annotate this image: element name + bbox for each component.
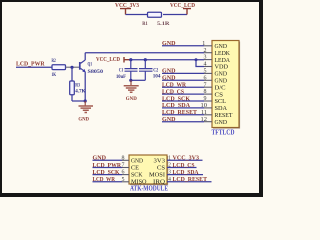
- wire R3 bottom to emitter: [72, 100, 85, 102]
- power port VCC_LCD (mid): [96, 56, 131, 63]
- pin 9: [204, 100, 212, 102]
- module pin 4: [167, 181, 212, 183]
- module pin 5: [122, 181, 129, 183]
- svg-text:10: 10: [201, 103, 208, 109]
- svg-text:104: 104: [153, 74, 161, 80]
- svg-text:S8050: S8050: [88, 69, 104, 75]
- wire Q1 emitter down: [84, 72, 86, 101]
- svg-text:Q1: Q1: [88, 61, 93, 67]
- wire GND to pin12: [162, 121, 204, 123]
- pin 8: [204, 93, 212, 95]
- svg-text:LCD_RESET: LCD_RESET: [173, 176, 208, 183]
- resistor R2: [52, 58, 66, 78]
- svg-text:3V3: 3V3: [154, 158, 166, 164]
- wire LCD_PWR to R2: [16, 66, 52, 68]
- svg-text:1: 1: [202, 41, 205, 47]
- wire GND to pin1: [162, 45, 204, 47]
- svg-text:LCD_PWR: LCD_PWR: [16, 61, 45, 68]
- pin 7: [204, 86, 212, 88]
- svg-text:TFTLCD: TFTLCD: [212, 130, 235, 137]
- svg-text:7: 7: [204, 82, 207, 88]
- svg-text:VCC_LCD: VCC_LCD: [96, 56, 120, 63]
- svg-text:10uF: 10uF: [116, 74, 126, 80]
- wire rail collector to LEDK pin2: [85, 52, 204, 54]
- wire LCD_SCK to pin6: [93, 174, 123, 176]
- photo border left: [0, 0, 2, 197]
- photo border bottom: [0, 193, 263, 197]
- svg-text:5: 5: [204, 69, 207, 75]
- node junction LEDA/VDD: [195, 58, 198, 61]
- svg-text:GND: GND: [126, 96, 137, 102]
- svg-text:1K: 1K: [52, 72, 57, 78]
- wire GND to pin6: [162, 79, 204, 81]
- svg-text:VCC_LCD: VCC_LCD: [170, 2, 195, 9]
- svg-text:CE: CE: [131, 166, 139, 172]
- photo border right: [259, 0, 263, 197]
- wire Q1 collector to rail: [84, 53, 86, 60]
- wire LCD_PWR to pin7: [93, 167, 123, 169]
- svg-text:11: 11: [201, 110, 207, 116]
- node junction emitter/R3: [84, 99, 87, 102]
- capacitor C2: [139, 60, 161, 81]
- svg-text:2: 2: [204, 48, 207, 54]
- svg-text:3: 3: [204, 55, 207, 61]
- wire LCD_WR to pin7: [162, 86, 204, 88]
- power port VCC_3V3: [115, 2, 140, 14]
- ground (Q1 emitter): [78, 101, 93, 122]
- wire LCD_RESET to pin11: [162, 114, 204, 116]
- photo border top: [0, 0, 263, 2]
- module pin 6: [122, 174, 129, 176]
- wire LCD_SDA to pin10: [162, 107, 204, 109]
- svg-text:SCK: SCK: [131, 173, 143, 179]
- svg-text:12: 12: [201, 117, 208, 123]
- pin 5: [204, 72, 212, 74]
- connector U_TFTLCD box: [212, 41, 240, 129]
- pin 3: [204, 59, 212, 61]
- svg-text:R1: R1: [142, 21, 148, 27]
- power port VCC_LCD (top): [170, 2, 195, 14]
- svg-text:ATK-MODULE: ATK-MODULE: [130, 185, 168, 192]
- wire VCC_LCD rail: [131, 59, 204, 61]
- capacitor C1: [116, 60, 138, 81]
- svg-text:4: 4: [204, 62, 207, 68]
- svg-text:R2: R2: [52, 58, 56, 64]
- node junction C1: [129, 58, 132, 61]
- svg-text:6: 6: [204, 75, 207, 81]
- svg-text:MOSI: MOSI: [149, 173, 165, 179]
- connector ATK-MODULE box: [129, 155, 168, 185]
- pin 4: [204, 66, 212, 68]
- node junction C2: [144, 58, 147, 61]
- wire LCD_WR to pin5: [93, 181, 123, 183]
- wire R2 to Q1 base: [66, 66, 80, 68]
- svg-text:LCD_SDA: LCD_SDA: [173, 169, 199, 176]
- module pin 2: [167, 167, 197, 169]
- ground (C1 C2): [124, 80, 139, 102]
- wire VCC_3V3 to R1: [126, 14, 148, 16]
- pin 1: [204, 45, 212, 47]
- svg-text:GND: GND: [78, 116, 89, 122]
- module pin 8: [122, 159, 129, 161]
- module pin 3: [167, 174, 203, 176]
- pin 2: [204, 52, 212, 54]
- wire GND to pin5: [162, 72, 204, 74]
- node junction at R3 top: [70, 66, 73, 69]
- svg-text:GND: GND: [131, 158, 144, 164]
- svg-text:C2: C2: [153, 67, 158, 73]
- resistor R3: [70, 67, 86, 101]
- svg-text:8: 8: [204, 89, 207, 95]
- pin 10: [204, 107, 212, 109]
- wire R1 to VCC_LCD: [163, 14, 187, 16]
- pin 11: [204, 114, 212, 116]
- svg-text:CS: CS: [157, 166, 165, 172]
- wire to VDD pin4: [196, 60, 204, 67]
- resistor R1: [142, 12, 170, 27]
- svg-text:5.1R: 5.1R: [157, 21, 170, 27]
- wire LCD_CS to pin8: [162, 93, 204, 95]
- svg-text:VCC_3V3: VCC_3V3: [173, 155, 200, 162]
- svg-text:R3: R3: [75, 83, 80, 89]
- wire LCD_SCK to pin9: [162, 100, 204, 102]
- svg-text:C1: C1: [119, 67, 124, 73]
- svg-text:9: 9: [204, 96, 207, 102]
- svg-text:GND: GND: [215, 119, 228, 126]
- svg-text:2: 2: [168, 163, 171, 169]
- pin 12: [204, 121, 212, 123]
- wire GND to pin8: [93, 159, 123, 161]
- module pin 1: [167, 159, 203, 161]
- svg-text:4: 4: [168, 177, 171, 183]
- svg-text:4.7K: 4.7K: [75, 89, 86, 95]
- svg-text:3: 3: [168, 170, 171, 176]
- wire C2 bottom to C1 bottom: [131, 79, 146, 81]
- svg-text:1: 1: [168, 155, 171, 161]
- pin 6: [204, 79, 212, 81]
- svg-text:LCD_CS: LCD_CS: [173, 162, 195, 169]
- transistor Q1: [80, 60, 103, 75]
- module pin 7: [122, 167, 129, 169]
- node junction cap gnd: [129, 79, 132, 82]
